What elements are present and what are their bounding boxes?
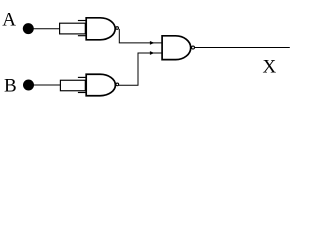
NAND gate U2 body bbox=[86, 74, 115, 96]
fork rectangle tying U1 inputs bbox=[60, 23, 86, 34]
wire U1 output to U3 top input bbox=[119, 29, 162, 43]
wire A bbox=[30, 28, 60, 30]
arrowhead on U3 top input bbox=[150, 41, 155, 45]
output wire to X bbox=[195, 47, 290, 49]
NAND gate U1 body bbox=[86, 18, 115, 40]
NAND gate U1 output bubble bbox=[116, 27, 119, 30]
wire B bbox=[30, 84, 60, 86]
NAND gate U3 body bbox=[162, 36, 191, 60]
fork rectangle tying U2 inputs bbox=[60, 80, 85, 91]
U2 upper input pin stub bbox=[78, 76, 86, 78]
U1 upper input pin stub bbox=[78, 20, 86, 22]
svg-text:A: A bbox=[2, 10, 16, 31]
wire U2 output to U3 bottom input bbox=[119, 53, 163, 85]
U2 lower input pin stub bbox=[78, 92, 86, 94]
NAND gate U3 output bubble bbox=[192, 46, 195, 49]
arrowhead on U3 bottom input bbox=[150, 51, 155, 55]
svg-text:X: X bbox=[263, 56, 277, 77]
NAND gate U2 output bubble bbox=[116, 83, 119, 86]
U1 lower input pin stub bbox=[78, 35, 86, 37]
node A terminal dot bbox=[23, 23, 34, 34]
node B terminal dot bbox=[23, 80, 34, 91]
svg-text:B: B bbox=[4, 76, 17, 97]
